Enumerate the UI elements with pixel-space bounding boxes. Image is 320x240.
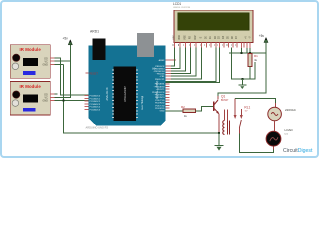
reset pin stub xyxy=(85,72,88,74)
svg-text:IR Module: IR Module xyxy=(19,84,41,89)
wire: arduino PD0 to R2 xyxy=(166,110,183,112)
node: IR2 GND junction xyxy=(62,99,64,101)
svg-text:PC5/ADC5: PC5/ADC5 xyxy=(89,108,100,111)
svg-text:PD0/RXD: PD0/RXD xyxy=(155,103,165,105)
svg-text:PC3/ADC3: PC3/ADC3 xyxy=(89,103,100,106)
svg-text:VEE: VEE xyxy=(184,35,186,40)
svg-text:PD2/INT0: PD2/INT0 xyxy=(155,97,165,99)
power symbol +5v (left) xyxy=(63,36,73,45)
wire: IR1 GND to gnd rail xyxy=(55,63,64,65)
lcd pin name band xyxy=(173,35,251,40)
svg-text:ARD1: ARD1 xyxy=(90,30,99,34)
wire: lcd vss/vee/rw + led- down to ground bus xyxy=(231,48,255,79)
transistor Q1 BC547 xyxy=(213,95,229,134)
resistor R2 xyxy=(181,105,196,118)
wire: +5v stem and distribution bus xyxy=(218,43,266,100)
right pin stubs xyxy=(166,60,177,108)
svg-text:~PD3/INT1: ~PD3/INT1 xyxy=(154,95,166,97)
wire: AC source to load xyxy=(273,121,275,132)
wire: GND rail from IR modules along bottom to transistor emitter ground xyxy=(63,64,219,133)
svg-text:PC0/ADC0: PC0/ADC0 xyxy=(89,95,100,98)
svg-text:www.TheEngi: www.TheEngi xyxy=(142,95,144,110)
svg-text:VDD: VDD xyxy=(179,35,181,40)
lamp LOAD xyxy=(266,128,293,146)
IR module U2 (top) xyxy=(10,45,55,79)
svg-text:LM016L CUSTOM: LM016L CUSTOM xyxy=(173,7,190,9)
wire: LCD backlight/vdd pin drops to +5v bus xyxy=(241,48,250,53)
IR module U3 (bottom) xyxy=(10,82,55,116)
outer light blue frame xyxy=(1,1,318,157)
wire: IR2 OUT to Arduino PC1 xyxy=(55,93,58,95)
svg-text:lum: lum xyxy=(285,133,289,135)
svg-text:R2: R2 xyxy=(181,105,185,109)
svg-text:~PD6/AIN0: ~PD6/AIN0 xyxy=(153,85,165,88)
wire: +5v rail to IR1 VCC and IR2 VCC xyxy=(55,45,71,98)
svg-text:PB0/ICP1: PB0/ICP1 xyxy=(155,79,165,81)
ground symbol (emitter) xyxy=(215,133,224,150)
svg-text:ATMEGA328P: ATMEGA328P xyxy=(124,86,127,102)
svg-text:RS: RS xyxy=(190,35,192,39)
node: ground junction xyxy=(241,78,243,80)
svg-text:PD7/AIN1: PD7/AIN1 xyxy=(155,83,166,86)
svg-text:+5v: +5v xyxy=(63,36,69,40)
svg-text:220VAC: 220VAC xyxy=(285,108,297,112)
svg-text:+5v: +5v xyxy=(259,34,265,38)
usb connector xyxy=(92,39,105,61)
svg-text:+V: +V xyxy=(246,36,248,39)
wire: IR2 GND to gnd rail xyxy=(55,99,89,101)
svg-text:~PD5/T1: ~PD5/T1 xyxy=(156,89,165,91)
power symbol +5v (right, near LCD) xyxy=(259,34,268,43)
MCU chip ATMEGA328P xyxy=(112,67,138,122)
svg-text:RL1: RL1 xyxy=(244,105,250,109)
svg-text:ANALOG IN: ANALOG IN xyxy=(106,87,109,100)
svg-text:RESET: RESET xyxy=(89,71,98,75)
svg-text:VSS: VSS xyxy=(173,35,175,40)
wire: relay NO down along bottom to load xyxy=(239,134,273,153)
svg-text:AREF: AREF xyxy=(159,59,165,62)
resistor R1 xyxy=(248,54,258,79)
right pin labels xyxy=(152,59,165,113)
page background xyxy=(0,0,319,158)
wire: R2 to Q1 base xyxy=(196,106,213,110)
svg-text:GND: GND xyxy=(160,111,165,113)
node: bus junctions xyxy=(240,52,242,54)
svg-text:PC4/ADC4: PC4/ADC4 xyxy=(89,106,100,109)
AC source V1 220VAC xyxy=(268,107,297,121)
svg-text:PD1/TXD: PD1/TXD xyxy=(155,100,165,102)
relay RL1 coil xyxy=(223,110,230,135)
svg-text:R1: R1 xyxy=(254,54,258,58)
svg-text:LOAD: LOAD xyxy=(285,128,294,132)
svg-text:Q1: Q1 xyxy=(221,95,225,99)
svg-text:IR Module: IR Module xyxy=(19,47,41,52)
lcd pin numbers xyxy=(173,44,236,46)
wire: two wrap-around wires from arduino to LCD right data pins xyxy=(166,48,220,83)
lcd pin stubs xyxy=(174,43,250,49)
svg-text:BC547: BC547 xyxy=(221,99,229,102)
wire: LCD staircase to arduino PB pins (6 wires) xyxy=(171,48,202,79)
left analog pin labels xyxy=(89,95,100,112)
svg-text:GND: GND xyxy=(42,64,48,67)
svg-text:PD4/T0/XCK: PD4/T0/XCK xyxy=(152,92,165,94)
svg-text:CircuitDigest: CircuitDigest xyxy=(283,148,313,154)
svg-text:ARDUINO UNO R3: ARDUINO UNO R3 xyxy=(86,126,109,130)
svg-text:GND: GND xyxy=(42,100,48,103)
left analog pin stubs xyxy=(85,96,89,110)
wire: IR1 OUT down to Arduino PC0 xyxy=(55,58,89,95)
svg-text:PD0/RXD: PD0/RXD xyxy=(155,108,165,110)
svg-text:PC2/ADC2: PC2/ADC2 xyxy=(89,100,100,103)
power jack (gray block) xyxy=(137,33,154,57)
ground symbol (LCD/R1) xyxy=(238,79,246,89)
svg-text:LCD1: LCD1 xyxy=(173,2,181,6)
LCD LM016L LCD1 xyxy=(173,2,253,48)
Arduino UNO board ARD1 xyxy=(85,30,176,126)
relay RL1 switch xyxy=(234,99,251,134)
svg-text:PD1/TXD: PD1/TXD xyxy=(155,105,165,107)
wire: relay common to AC source top xyxy=(235,99,275,104)
node: emitter/gnd-rail junction xyxy=(218,132,220,134)
svg-text:PC1/ADC1: PC1/ADC1 xyxy=(89,98,100,101)
